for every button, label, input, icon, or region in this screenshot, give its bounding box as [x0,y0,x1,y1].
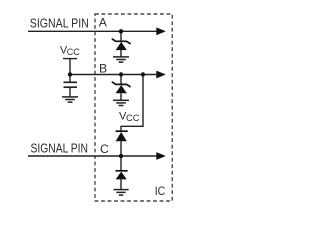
svg-text:IC: IC [155,184,166,198]
svg-text:C: C [100,142,109,156]
svg-text:SIGNAL PIN: SIGNAL PIN [31,142,89,156]
svg-text:CC: CC [67,47,80,57]
svg-text:B: B [99,61,107,75]
svg-text:SIGNAL PIN: SIGNAL PIN [30,17,89,31]
svg-text:A: A [99,16,108,30]
svg-text:CC: CC [126,113,140,123]
